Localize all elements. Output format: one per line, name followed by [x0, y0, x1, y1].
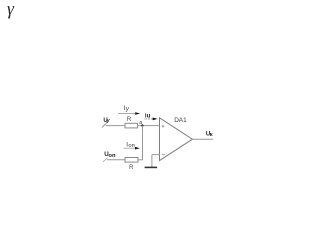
svg-text:iu: iu — [145, 113, 151, 120]
svg-text:γ: γ — [7, 0, 15, 18]
svg-text:оп: оп — [108, 153, 116, 159]
svg-text:a: a — [139, 120, 142, 126]
svg-text:R: R — [127, 116, 132, 123]
svg-text:y: y — [106, 118, 111, 124]
svg-text:R: R — [129, 164, 134, 171]
svg-text:DA1: DA1 — [174, 117, 187, 124]
svg-text:к: к — [210, 132, 213, 138]
svg-text:y: y — [125, 106, 130, 113]
svg-text:оп: оп — [128, 143, 134, 149]
